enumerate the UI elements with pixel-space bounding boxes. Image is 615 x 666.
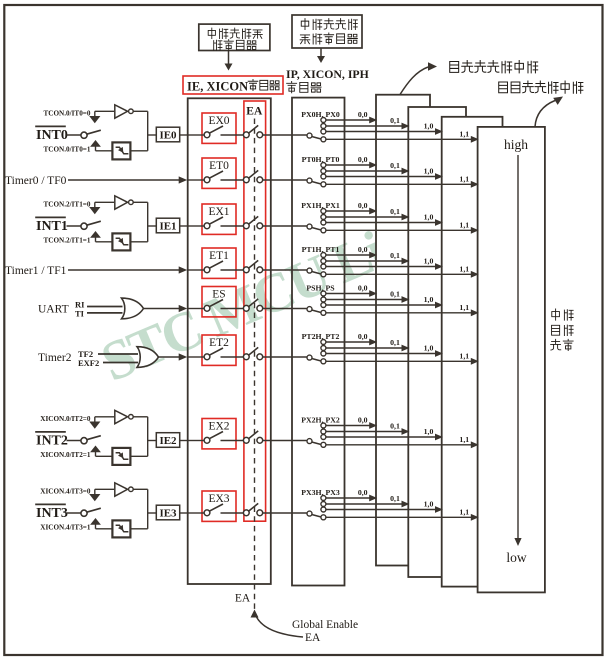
EA switch left contact (row EX1) <box>243 223 249 229</box>
svg-text:0,0: 0,0 <box>358 284 368 293</box>
EA switch left contact (row EX0) <box>243 132 249 138</box>
svg-text:EX1: EX1 <box>208 206 229 218</box>
selector contact 0,1 (PX1H, PX1) <box>321 215 326 220</box>
svg-text:ET2: ET2 <box>209 337 229 349</box>
switch arm ET0 <box>209 171 223 178</box>
svg-text:0,0: 0,0 <box>358 155 368 164</box>
wire to edge detector INT1 <box>96 241 113 243</box>
EA switch left contact (row ET2) <box>243 354 249 360</box>
wire into ET2 switch <box>189 356 205 358</box>
arrowhead Timer0 / TF0 <box>179 176 188 183</box>
level/edge select annotation arrows INT3 <box>94 489 96 494</box>
svg-text:PX2H, PX2: PX2H, PX2 <box>301 416 340 425</box>
wire 0,1 (PX3H, PX3) <box>326 503 402 505</box>
wire Timer1 / TF1 to enable box <box>68 269 179 271</box>
selector contact 1,0 (PX1H, PX1) <box>321 220 326 225</box>
selector arm PT0H, PT0 <box>312 182 321 184</box>
svg-text:EA: EA <box>305 632 321 644</box>
text 最低优先级中断 <box>450 61 459 72</box>
wire 0,1 (PSH, PS) <box>326 299 402 301</box>
arrowhead Timer1 / TF1 <box>179 266 188 273</box>
selector contact 0,1 (PT1H, PT1) <box>321 259 326 264</box>
svg-text:XICON.4/IT3=0: XICON.4/IT3=0 <box>40 488 91 496</box>
IP/XICON/IPH priority register container box <box>292 98 345 586</box>
wire EXF2 to OR gate <box>103 362 138 364</box>
svg-text:Timer2: Timer2 <box>38 352 72 364</box>
wire ES to EA switch <box>221 308 244 310</box>
wire to IE0 <box>148 134 157 136</box>
enable bit box ET0 <box>202 158 236 188</box>
svg-text:1,1: 1,1 <box>459 435 469 444</box>
wire 1,1 (PT1H, PT1) <box>326 273 472 275</box>
svg-text:TCON.0/IT0=1: TCON.0/IT0=1 <box>43 145 90 153</box>
wire to buffer INT0 <box>95 110 114 112</box>
svg-text:1,1: 1,1 <box>459 130 469 139</box>
EA switch left contact (row EX2) <box>243 437 249 443</box>
svg-text:IE0: IE0 <box>159 130 177 142</box>
enable bit box EX0 <box>202 113 236 143</box>
EA switch right contact (row ES) <box>257 305 263 311</box>
selector contact 1,0 (PT0H, PT0) <box>321 174 326 179</box>
wire 1,1 (PT0H, PT0) <box>326 183 472 185</box>
wire RI to OR gate <box>87 306 123 308</box>
arrow from priority-register box down to IP,XICON,IPH label <box>320 48 322 56</box>
EA switch arm (row EX0) <box>249 125 259 133</box>
svg-text:PT2H, PT2: PT2H, PT2 <box>302 332 340 341</box>
svg-text:0,0: 0,0 <box>358 488 368 497</box>
enable bit box EX2 <box>202 419 236 449</box>
svg-text:PX3H, PX3: PX3H, PX3 <box>301 488 340 497</box>
wire into EX0 switch <box>189 134 205 136</box>
svg-text:PT0H, PT0: PT0H, PT0 <box>302 155 340 164</box>
svg-text:1,0: 1,0 <box>424 427 434 436</box>
svg-text:INT0: INT0 <box>36 128 68 143</box>
svg-text:ES: ES <box>212 288 225 300</box>
selector pivot PT2H, PT2 <box>307 355 312 360</box>
selector pivot PSH, PS <box>307 307 312 312</box>
selector arm PX1H, PX1 <box>312 228 321 230</box>
wire EX3 to EA switch <box>221 512 244 514</box>
wire 1,1 (PT2H, PT2) <box>326 360 472 362</box>
switch pivot INT3 <box>81 510 87 516</box>
text line 控制寄存器 <box>300 35 310 44</box>
switch arm ET1 <box>209 261 223 268</box>
wire 1,1 (PX3H, PX3) <box>326 516 472 518</box>
EA switch left contact (row ET0) <box>243 177 249 183</box>
selector contact 0,0 (PX1H, PX1) <box>321 209 326 214</box>
svg-text:1,0: 1,0 <box>424 344 434 353</box>
wire 1,0 (PSH, PS) <box>326 304 436 306</box>
wire to edge detector INT3 <box>96 528 113 530</box>
junction vertical INT0 <box>147 111 149 151</box>
svg-text:1,1: 1,1 <box>459 265 469 274</box>
selector arm PSH, PS <box>312 310 321 312</box>
wire buffer out INT0 <box>133 110 148 112</box>
selector contact 1,0 (PX2H, PX2) <box>321 435 326 440</box>
wire INT2 to switch <box>67 440 81 442</box>
svg-text:IE1: IE1 <box>159 221 176 233</box>
switch arm EX1 <box>209 217 223 224</box>
wire INT1 to switch <box>67 225 81 227</box>
red EA enable column box <box>244 101 266 521</box>
wire ET2 to EA switch <box>221 356 244 358</box>
EA switch arm (row ET0) <box>249 170 259 178</box>
EA switch left contact (row ES) <box>243 305 249 311</box>
switch pivot ET0 <box>204 177 210 183</box>
selector contact 0,0 (PSH, PS) <box>321 291 326 296</box>
enable bit box ET1 <box>202 248 236 278</box>
switch pivot EX3 <box>204 510 210 516</box>
junction vertical INT2 <box>147 417 149 457</box>
text 寄存器 (IE label) <box>248 80 258 91</box>
wire OR out to enable box <box>159 356 180 358</box>
wire into ET0 switch <box>189 179 205 181</box>
svg-text:low: low <box>506 550 527 565</box>
switch arm EX0 <box>209 126 223 133</box>
svg-text:0,1: 0,1 <box>390 338 400 347</box>
text 最高优先级中断 <box>499 82 508 93</box>
arrowhead up to EA line <box>251 610 259 618</box>
red label box: IE, XICON registers <box>183 76 283 94</box>
wire INT0 to switch <box>67 134 81 136</box>
svg-text:1,0: 1,0 <box>424 257 434 266</box>
wire Timer0 / TF0 to enable box <box>68 179 179 181</box>
wire TF2 to OR gate <box>98 353 138 355</box>
switch arm INT3 <box>87 508 101 512</box>
selector contact 0,1 (PT2H, PT2) <box>321 346 326 351</box>
svg-text:EX3: EX3 <box>208 493 229 505</box>
selector contact 0,1 (PX3H, PX3) <box>321 502 326 507</box>
EA switch right contact (row ET1) <box>257 267 263 273</box>
selector pivot PT1H, PT1 <box>307 268 312 273</box>
selector contact 0,0 (PT1H, PT1) <box>321 253 326 258</box>
text 中断 <box>552 309 560 320</box>
selector contact 0,1 (PT0H, PT0) <box>321 169 326 174</box>
wire 0,1 (PT2H, PT2) <box>326 347 402 349</box>
wire edge out INT3 <box>130 528 147 530</box>
selector contact 1,1 (PX3H, PX3) <box>321 515 326 520</box>
svg-text:TCON.2/IT1=1: TCON.2/IT1=1 <box>43 236 90 244</box>
svg-text:0,1: 0,1 <box>390 494 400 503</box>
switch arm INT1 <box>87 221 101 225</box>
flag box IE2 <box>156 433 179 448</box>
wire 1,0 (PT1H, PT1) <box>326 266 436 268</box>
svg-text:0,0: 0,0 <box>358 416 368 425</box>
wire to priority selector (row ET1) <box>263 269 307 271</box>
wire 0,1 (PT1H, PT1) <box>326 260 402 262</box>
box label: interrupt-enable control register (中断允许控制寄存器) <box>199 24 270 50</box>
svg-text:1,1: 1,1 <box>459 221 469 230</box>
wire to edge detector INT2 <box>96 455 113 457</box>
wire ET1 to EA switch <box>221 269 244 271</box>
svg-text:PX1H, PX1: PX1H, PX1 <box>301 201 340 210</box>
wire 1,1 (PX0H, PX0) <box>326 138 472 140</box>
EA switch right contact (row ET2) <box>257 354 263 360</box>
annotation: lowest priority interrupt (最低优先级中断) <box>400 67 428 95</box>
svg-text:INT2: INT2 <box>36 434 68 449</box>
wire 0,0 (PT0H, PT0) <box>326 164 370 166</box>
svg-text:1,0: 1,0 <box>424 122 434 131</box>
svg-text:0,1: 0,1 <box>390 290 400 299</box>
switch pivot EX0 <box>204 132 210 138</box>
wire into EX1 switch <box>189 225 205 227</box>
text line 制寄存器 <box>214 40 222 50</box>
polling order arrow (high to low) <box>517 155 519 539</box>
svg-text:XICON.0/IT2=1: XICON.0/IT2=1 <box>40 451 91 459</box>
EA switch right contact (row ET0) <box>257 177 263 183</box>
EA switch arm (row ET2) <box>249 347 259 355</box>
flag box IE3 <box>156 505 179 520</box>
EA switch arm (row EX2) <box>249 431 259 439</box>
selector contact 1,0 (PX0H, PX0) <box>321 129 326 134</box>
svg-text:IE3: IE3 <box>159 508 177 520</box>
svg-text:EX2: EX2 <box>208 420 229 432</box>
wire to buffer INT1 <box>95 201 114 203</box>
junction vertical INT1 <box>147 202 149 242</box>
selector contact 0,0 (PT2H, PT2) <box>321 340 326 345</box>
svg-text:0,1: 0,1 <box>390 422 400 431</box>
switch pivot ET2 <box>204 354 210 360</box>
selector arm PX0H, PX0 <box>312 137 321 139</box>
svg-text:EXF2: EXF2 <box>78 358 99 368</box>
edge detector (falling edge) INT2 <box>112 448 130 465</box>
enable bit box EX3 <box>202 491 236 521</box>
wire 0,0 (PX2H, PX2) <box>326 425 370 427</box>
priority queue rectangle 1 (0,0) <box>376 95 430 566</box>
wire 1,1 (PSH, PS) <box>326 312 472 314</box>
selector pivot PX1H, PX1 <box>307 224 312 229</box>
svg-text:0,1: 0,1 <box>390 116 400 125</box>
wire IE3 to enable box <box>180 512 188 514</box>
wire EX2 to EA switch <box>221 440 244 442</box>
wire 0,0 (PX0H, PX0) <box>326 119 370 121</box>
wire 1,0 (PX1H, PX1) <box>326 222 436 224</box>
wire EX0 to EA switch <box>221 134 244 136</box>
EA switch arm (row ES) <box>249 299 259 307</box>
selector contact 0,0 (PX2H, PX2) <box>321 423 326 428</box>
selector contact 1,1 (PX2H, PX2) <box>321 442 326 447</box>
buffer (level trigger) INT3 <box>115 483 128 496</box>
svg-text:TCON.0/IT0=0: TCON.0/IT0=0 <box>43 110 90 118</box>
wire to priority selector (row EX3) <box>263 512 307 514</box>
svg-text:Timer1 / TF1: Timer1 / TF1 <box>5 265 67 277</box>
svg-text:1,0: 1,0 <box>424 213 434 222</box>
curved pointer: Global Enable EA <box>257 617 304 637</box>
svg-text:XICON.0/IT2=0: XICON.0/IT2=0 <box>40 415 91 423</box>
svg-text:TCON.2/IT1=0: TCON.2/IT1=0 <box>43 201 90 209</box>
wire to IE1 <box>148 225 157 227</box>
text 寄存器 (IP label) <box>287 82 297 93</box>
selector arm PX3H, PX3 <box>312 515 321 517</box>
wire into EX2 switch <box>189 440 205 442</box>
svg-text:EA: EA <box>246 106 263 118</box>
level/edge select annotation arrows INT1 <box>94 202 96 207</box>
svg-text:IP, XICON, IPH: IP, XICON, IPH <box>286 67 369 81</box>
wire 1,0 (PX0H, PX0) <box>326 131 436 133</box>
buffer (level trigger) INT1 <box>115 196 128 209</box>
wire 0,1 (PX2H, PX2) <box>326 431 402 433</box>
svg-text:1,1: 1,1 <box>459 175 469 184</box>
wire edge out INT2 <box>130 455 147 457</box>
EA switch right contact (row EX2) <box>257 437 263 443</box>
selector arm PT1H, PT1 <box>312 272 321 274</box>
selector pivot PT0H, PT0 <box>307 178 312 183</box>
wire 0,0 (PX3H, PX3) <box>326 497 370 499</box>
wire to buffer INT2 <box>95 416 114 418</box>
wire OR out to enable box <box>144 308 180 310</box>
svg-text:PSH, PS: PSH, PS <box>306 284 334 293</box>
svg-text:1,1: 1,1 <box>459 352 469 361</box>
wire 0,1 (PX0H, PX0) <box>326 125 402 127</box>
svg-text:INT1: INT1 <box>36 219 68 234</box>
selector contact 1,1 (PX0H, PX0) <box>321 137 326 142</box>
svg-text:PX0H, PX0: PX0H, PX0 <box>301 110 340 119</box>
svg-text:IE2: IE2 <box>159 435 177 447</box>
edge detector (falling edge) INT3 <box>112 520 130 537</box>
svg-text:XICON.4/IT3=1: XICON.4/IT3=1 <box>40 523 91 531</box>
selector contact 1,0 (PSH, PS) <box>321 303 326 308</box>
selector arm PT2H, PT2 <box>312 359 321 361</box>
svg-text:IE, XICON: IE, XICON <box>187 80 248 94</box>
svg-text:high: high <box>504 137 528 152</box>
svg-text:ET0: ET0 <box>209 160 229 172</box>
switch arm INT2 <box>87 436 101 440</box>
wire 1,0 (PT0H, PT0) <box>326 176 436 178</box>
wire 1,0 (PX3H, PX3) <box>326 509 436 511</box>
selector contact 1,0 (PX3H, PX3) <box>321 507 326 512</box>
enable bit box ES <box>202 287 236 317</box>
svg-text:1,1: 1,1 <box>459 303 469 312</box>
svg-text:0,0: 0,0 <box>358 110 368 119</box>
wire 0,0 (PSH, PS) <box>326 293 370 295</box>
wire 1,1 (PX2H, PX2) <box>326 444 472 446</box>
junction vertical INT3 <box>147 489 149 529</box>
switch arm ET2 <box>209 348 223 355</box>
wire to priority selector (row ES) <box>263 308 307 310</box>
selector contact 1,0 (PT1H, PT1) <box>321 264 326 269</box>
wire edge out INT0 <box>130 150 147 152</box>
selector contact 1,1 (PSH, PS) <box>321 310 326 315</box>
wire 1,1 (PX1H, PX1) <box>326 229 472 231</box>
arrow from enable-register box down to IE,XICON label <box>228 51 230 65</box>
wire to priority selector (row ET0) <box>263 179 307 181</box>
switch arm EX3 <box>209 504 223 511</box>
selector contact 1,1 (PT0H, PT0) <box>321 182 326 187</box>
wire 0,1 (PT0H, PT0) <box>326 170 402 172</box>
switch pivot EX1 <box>204 223 210 229</box>
wire 0,1 (PX1H, PX1) <box>326 216 402 218</box>
wire to priority selector (row EX1) <box>263 225 307 227</box>
flag box IE1 <box>156 218 179 233</box>
wire buffer out INT1 <box>133 201 148 203</box>
wire EX1 to EA switch <box>221 225 244 227</box>
selector contact 0,0 (PX3H, PX3) <box>321 496 326 501</box>
wire IE0 to enable box <box>180 134 188 136</box>
svg-text:0,1: 0,1 <box>390 207 400 216</box>
annotation: highest priority interrupt (最高优先级中断) <box>535 101 555 127</box>
edge detector (falling edge) INT0 <box>112 142 130 159</box>
text line 中断允许控 <box>208 28 215 39</box>
selector contact 0,0 (PX0H, PX0) <box>321 118 326 123</box>
switch pivot ET1 <box>204 267 210 273</box>
EA switch arm (row EX3) <box>249 503 259 511</box>
wire ET0 to EA switch <box>221 179 244 181</box>
level/edge select annotation arrows INT0 <box>94 111 96 116</box>
wire to IE3 <box>148 512 157 514</box>
selector arm PX2H, PX2 <box>312 442 321 444</box>
EA switch left contact (row EX3) <box>243 510 249 516</box>
EA switch right contact (row EX1) <box>257 223 263 229</box>
level/edge select annotation arrows INT2 <box>94 417 96 422</box>
svg-text:ET1: ET1 <box>209 250 229 262</box>
selector pivot PX3H, PX3 <box>307 511 312 516</box>
buffer (level trigger) INT2 <box>115 410 128 423</box>
edge detector (falling edge) INT1 <box>112 233 130 250</box>
wire to priority selector (row EX0) <box>263 134 307 136</box>
EA switch left contact (row ET1) <box>243 267 249 273</box>
svg-text:INT3: INT3 <box>36 506 68 521</box>
selector contact 1,0 (PT2H, PT2) <box>321 351 326 356</box>
selector contact 0,1 (PX2H, PX2) <box>321 429 326 434</box>
EA switch right contact (row EX0) <box>257 132 263 138</box>
wire to priority selector (row ET2) <box>263 356 307 358</box>
svg-text:TI: TI <box>75 309 85 319</box>
switch pivot ES <box>204 305 210 311</box>
text 次序 <box>551 339 561 350</box>
selector contact 0,1 (PSH, PS) <box>321 297 326 302</box>
switch pivot INT2 <box>81 438 87 444</box>
switch pivot INT0 <box>81 132 87 138</box>
wire to edge detector INT0 <box>96 150 113 152</box>
wire edge out INT1 <box>130 241 147 243</box>
switch arm INT0 <box>87 130 101 134</box>
wire INT3 to switch <box>67 512 81 514</box>
svg-text:UART: UART <box>38 304 69 316</box>
selector pivot PX2H, PX2 <box>307 439 312 444</box>
EA switch arm (row EX1) <box>249 216 259 224</box>
wire 0,0 (PX1H, PX1) <box>326 210 370 212</box>
wire to IE2 <box>148 440 157 442</box>
interrupt polling order rectangle (high..low) <box>478 127 545 593</box>
EA switch right contact (row EX3) <box>257 510 263 516</box>
svg-text:1,0: 1,0 <box>424 500 434 509</box>
svg-text:PT1H, PT1: PT1H, PT1 <box>302 245 340 254</box>
wire 0,0 (PT1H, PT1) <box>326 254 370 256</box>
flag box IE0 <box>156 127 179 142</box>
EA switch arm (row ET1) <box>249 260 259 268</box>
wire TI to OR gate <box>87 312 123 314</box>
OR gate U-Timer2 <box>137 347 159 368</box>
svg-text:Global Enable: Global Enable <box>292 619 358 631</box>
wire into ES switch <box>189 308 205 310</box>
switch pivot EX2 <box>204 437 210 443</box>
selector contact 1,1 (PT2H, PT2) <box>321 359 326 364</box>
wire buffer out INT2 <box>133 416 148 418</box>
buffer (level trigger) INT0 <box>115 105 128 118</box>
EA dashed enable line <box>254 119 256 585</box>
selector contact 0,0 (PT0H, PT0) <box>321 163 326 168</box>
wire 0,0 (PT2H, PT2) <box>326 341 370 343</box>
svg-text:1,1: 1,1 <box>459 508 469 517</box>
text line 中断优先级 <box>301 19 308 30</box>
wire 1,0 (PT2H, PT2) <box>326 353 436 355</box>
switch arm EX2 <box>209 432 223 439</box>
enable bit box EX1 <box>202 204 236 234</box>
text 查询 <box>552 325 560 335</box>
svg-text:0,0: 0,0 <box>358 201 368 210</box>
wire 1,0 (PX2H, PX2) <box>326 436 436 438</box>
svg-text:1,0: 1,0 <box>424 295 434 304</box>
